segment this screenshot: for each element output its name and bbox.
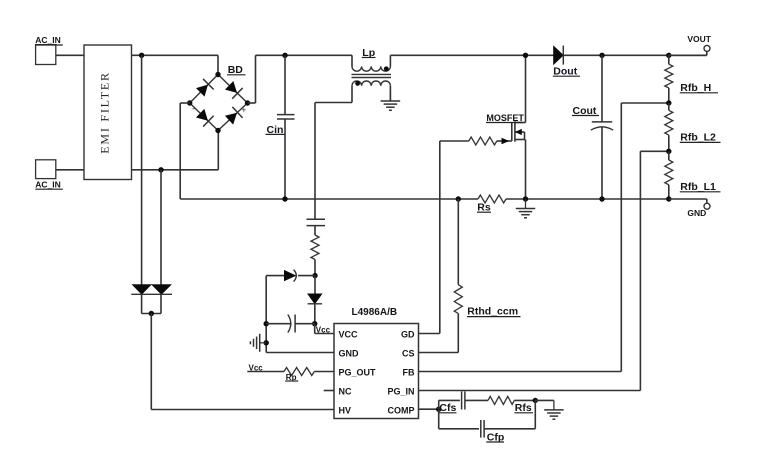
svg-text:GD: GD	[401, 330, 415, 340]
svg-text:NC: NC	[339, 387, 352, 397]
svg-text:Vcc: Vcc	[316, 325, 331, 334]
svg-text:GND: GND	[339, 349, 360, 359]
svg-text:Rfb_H: Rfb_H	[680, 82, 711, 94]
svg-text:PG_IN: PG_IN	[387, 387, 414, 397]
svg-text:MOSFET: MOSFET	[486, 113, 524, 123]
svg-text:VCC: VCC	[339, 330, 359, 340]
svg-text:Rthd_ccm: Rthd_ccm	[467, 306, 518, 318]
svg-text:L4986A/B: L4986A/B	[352, 307, 398, 318]
svg-text:GND: GND	[687, 208, 706, 218]
svg-text:HV: HV	[339, 406, 352, 416]
svg-text:AC_IN: AC_IN	[35, 180, 61, 190]
svg-text:PG_OUT: PG_OUT	[339, 368, 377, 378]
svg-text:+: +	[242, 106, 247, 115]
svg-text:FB: FB	[403, 368, 415, 378]
svg-text:VOUT: VOUT	[687, 34, 711, 44]
svg-text:-: -	[192, 104, 195, 114]
svg-text:CS: CS	[402, 349, 415, 359]
svg-text:EMI FILTER: EMI FILTER	[98, 71, 112, 154]
svg-text:COMP: COMP	[388, 406, 415, 416]
svg-text:AC_IN: AC_IN	[35, 35, 61, 45]
svg-text:BD: BD	[228, 64, 244, 76]
